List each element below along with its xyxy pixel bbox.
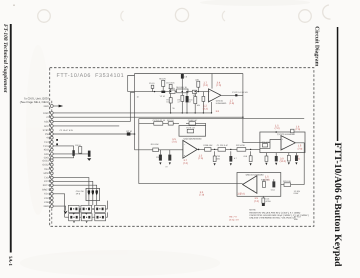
label NJM right opamp (277, 133, 296, 136)
wire opamp bias stubs (211, 74, 214, 113)
wire OSC1 (53, 146, 73, 158)
pin 9 TGT (44, 141, 53, 144)
wire jog node B (130, 93, 134, 122)
svg-text:35: 35 (172, 107, 174, 110)
NOTE block (249, 209, 309, 220)
hole punch top 2 (121, 11, 124, 21)
wire switch right bus (105, 201, 107, 218)
value labels upper hang (166, 98, 200, 109)
svg-text:Q7(2/2) NJM4558D: Q7(2/2) NJM4558D (277, 133, 296, 136)
wire into right box (260, 140, 281, 149)
svg-text:R18: R18 (244, 155, 247, 158)
header stubs to switches (89, 201, 97, 206)
voltage red left of opamp (172, 138, 177, 144)
voltage red near R28 (298, 145, 303, 151)
voltage mark red 1.2 (203, 105, 208, 111)
wire second row rail (139, 118, 304, 120)
capacitor C21B hang (165, 150, 171, 169)
wire stage left edge (134, 74, 136, 150)
svg-text:1.5: 1.5 (298, 145, 302, 148)
pin 6 STBY (43, 129, 54, 132)
pin 16 TRA (44, 168, 53, 171)
resistor R21 (167, 119, 174, 125)
wire KDT to header (53, 185, 96, 188)
svg-text:C17B 0.22 1K: C17B 0.22 1K (153, 119, 166, 122)
diode D1 (72, 150, 74, 156)
svg-text:R5 47K: R5 47K (159, 78, 166, 81)
pin 23 KD2 (44, 197, 53, 200)
resistor R3 (75, 144, 81, 153)
pin 5 ACC (44, 125, 53, 128)
svg-text:KD2: KD2 (44, 197, 49, 200)
voltage red right upper (295, 125, 300, 131)
svg-text:4.7: 4.7 (177, 101, 180, 104)
svg-text:(7.0): (7.0) (254, 200, 259, 203)
pin 4 ASC (44, 120, 53, 123)
svg-text:(10.0): (10.0) (280, 160, 286, 163)
label Q7(1/2) NJM4558D (216, 100, 227, 105)
label C3 CF output (232, 91, 249, 94)
wire bus 4T (53, 116, 243, 118)
svg-text:(7.0): (7.0) (216, 84, 221, 87)
svg-text:(2.2): (2.2) (203, 107, 208, 110)
label header (76, 190, 84, 195)
right vertical rule (337, 27, 339, 141)
svg-text:TRA: TRA (44, 168, 49, 171)
pin 20 KDT3 (43, 184, 53, 187)
resistor R22 series (236, 144, 246, 151)
right title FTT-10/A06 6-Button Keypad (332, 143, 343, 268)
svg-text:Circuit Diagram: Circuit Diagram (314, 26, 320, 66)
svg-text:RESISTOR: VALUES ARE IN Ω ( 1/: RESISTOR: VALUES ARE IN Ω ( 1/4W ), K = … (249, 211, 300, 214)
resistor R10 hang (193, 92, 197, 113)
resistor R5 vertical (159, 78, 166, 91)
resistor R6 series (176, 86, 188, 93)
capacitor C8 vertical (166, 74, 188, 92)
svg-text:Y2 10: Y2 10 (160, 95, 166, 98)
wire GND bottom (53, 206, 65, 211)
capacitor C11 hang (202, 92, 205, 113)
voltage red left of q8 (199, 191, 204, 197)
svg-text:C20B: C20B (156, 156, 161, 159)
ground D1 (84, 146, 87, 148)
junction dots upper rail (154, 91, 199, 92)
pin 7 CW (45, 133, 53, 136)
capacitor C26 below box right (295, 153, 298, 165)
svg-text:GND: GND (44, 205, 50, 208)
ferrite bead Y2 (160, 91, 166, 99)
resistor R24 in q8 box (261, 179, 269, 188)
capacitor C4 (88, 151, 91, 157)
svg-text:KDT: KDT (44, 180, 49, 183)
svg-text:UNLESS OTHERWISE NOTED. VOLTAG: UNLESS OTHERWISE NOTED. VOLTAGE: DC (249, 217, 296, 220)
wire opamp2 output rail (197, 149, 260, 151)
pin 14 OSC1 (42, 159, 53, 162)
voltage red q8 bottomleft (237, 193, 245, 196)
svg-text:KDT3: KDT3 (43, 184, 50, 187)
svg-text:NJM4558D: NJM4558D (191, 138, 202, 141)
svg-text:R3 1K: R3 1K (75, 144, 81, 147)
wire switch links row2 (79, 216, 94, 218)
svg-text:1.6: 1.6 (216, 110, 220, 113)
switch SW5 (81, 214, 92, 223)
junction dots +B rail (56, 139, 58, 145)
svg-text:5A-1: 5A-1 (7, 256, 13, 266)
wire +B CW (53, 133, 134, 135)
pin 11 KDO (44, 148, 53, 151)
svg-text:C3 CF 5.1 5K WV: C3 CF 5.1 5K WV (232, 91, 249, 94)
pin 24 KD6 (44, 201, 53, 204)
svg-text:FT-108 Technical Supplement: FT-108 Technical Supplement (2, 24, 8, 93)
voltage mark red 3.4 (216, 81, 221, 87)
resistor R8 hang (186, 92, 189, 113)
chassis ground mark (64, 211, 68, 214)
wire left column link (65, 216, 69, 218)
svg-text:R17B 1M: R17B 1M (186, 127, 195, 130)
capacitor C24 hang (229, 151, 237, 165)
svg-text:FTT-10/A06 F3534101: FTT-10/A06 F3534101 (57, 73, 125, 79)
svg-text:47/16: 47/16 (266, 200, 272, 203)
pin 3 4T (46, 116, 53, 119)
junction dot +B vertical (134, 133, 136, 135)
wire bus ACC (53, 125, 119, 127)
voltage red right of box (295, 155, 300, 161)
wire KDT3 drop (53, 194, 64, 217)
pin 10 TXT8 (43, 145, 53, 148)
svg-text:(7.0): (7.0) (199, 194, 204, 197)
capacitor C17B (153, 119, 166, 125)
pin 17 MCK (44, 172, 54, 175)
wire right box output (295, 143, 304, 185)
ground pin1 arrow (53, 105, 63, 108)
pin 25 GND (44, 205, 54, 208)
switch SW1 (68, 205, 79, 214)
resistor R29 below q8 box (262, 196, 272, 206)
pin 15 OSC2 (42, 163, 53, 166)
voltage red q8 topright (265, 176, 270, 182)
pin 13 GXD (44, 156, 53, 159)
capacitor C14 in q8 box (271, 179, 276, 191)
wire feedback top rail (135, 73, 243, 75)
voltage mark red below (216, 110, 220, 113)
svg-text:C6 10/16: C6 10/16 (166, 82, 175, 85)
svg-text:R2 10: R2 10 (126, 130, 132, 133)
svg-text:(1.6): (1.6) (229, 102, 234, 105)
hole punch top 3 (175, 8, 188, 21)
svg-text:R6: 7 V: R6: 7 V (229, 215, 237, 218)
wire opamp output (221, 94, 243, 96)
wire feedback long (139, 183, 243, 185)
wire TXD to header (53, 181, 93, 188)
svg-text:C5 10: C5 10 (149, 82, 155, 85)
ground C4 (87, 158, 91, 161)
voltage red q8 below (254, 197, 259, 203)
svg-text:ASC: ASC (44, 121, 49, 124)
svg-text:R6 100K 1K: R6 100K 1K (176, 86, 187, 89)
svg-text:OSC1: OSC1 (42, 159, 49, 162)
voltage mark red output (229, 99, 234, 105)
svg-text:NJM4558D: NJM4558D (216, 102, 227, 105)
capacitor C2 on +B (126, 130, 132, 136)
svg-text:R24 10K: R24 10K (261, 179, 269, 182)
feedback box R17B (179, 126, 206, 137)
left margin title FT-108 Technical Supplement (2, 24, 8, 93)
pin 22 KD1 (44, 192, 53, 195)
svg-text:TGT: TGT (44, 141, 49, 144)
svg-text:(7.0): (7.0) (172, 141, 177, 144)
header CN1 3P (86, 188, 100, 200)
junction dots bus (170, 112, 244, 118)
svg-text:1.6: 1.6 (296, 125, 300, 128)
svg-text:R22 470K: R22 470K (236, 144, 246, 147)
voltage red below opamp (183, 159, 188, 165)
wire MCK to header (53, 178, 89, 189)
wire OSC2 (53, 153, 89, 155)
resistor R28 below box right (287, 153, 290, 165)
svg-text:(7.0): (7.0) (203, 84, 208, 87)
wire inter-row drop (79, 209, 81, 214)
pin 18 TXD (44, 176, 53, 179)
svg-text:NOTE:: NOTE: (249, 209, 256, 212)
wire bus DISC (53, 112, 211, 114)
svg-text:47: 47 (189, 101, 191, 104)
junction dots lower rail (214, 149, 251, 150)
paper speck (13, 5, 15, 7)
wire feedback drop (138, 119, 140, 184)
capacitor C25 below box (275, 153, 278, 166)
svg-text:(6 C): 4 V: (6 C): 4 V (229, 218, 239, 221)
schematic title FTT-10/A06 F3534101 (57, 73, 125, 79)
wire row2 right drop (205, 123, 207, 125)
svg-text:DISC: DISC (43, 112, 49, 115)
svg-text:GND: GND (44, 105, 50, 108)
resistor R27 below box (265, 153, 268, 166)
svg-text:R19 10K: R19 10K (151, 143, 159, 146)
label C2 values (60, 129, 74, 132)
label NJM lower opamp (183, 138, 202, 141)
hole punch top 1 (38, 10, 51, 23)
pin 21 BRGT (42, 188, 53, 191)
capacitor C27 small (291, 129, 294, 133)
hole punch top 5 (299, 10, 312, 23)
switch SW3 (95, 205, 106, 212)
svg-text:(7.5): (7.5) (198, 157, 203, 160)
wire lower signal rail (135, 149, 183, 151)
svg-text:R20B 10K: R20B 10K (203, 144, 213, 147)
wire switch links row1 (79, 208, 94, 209)
svg-text:ACC: ACC (44, 125, 49, 128)
red note voltages (229, 215, 239, 221)
hole punch top 4 (222, 11, 225, 21)
capacitor C10 series small (192, 90, 196, 93)
right header Circuit Diagram (314, 26, 320, 66)
left margin black bar (10, 24, 12, 253)
svg-text:STBY: STBY (43, 129, 50, 132)
wire row2 (139, 122, 179, 124)
voltage red above right box (275, 124, 280, 130)
resistor R9 above (195, 78, 199, 91)
capacitor C23 hang (213, 151, 216, 165)
junction dot box top (275, 131, 277, 133)
pin 1 GND (44, 105, 54, 108)
page number 5A-1 (7, 256, 13, 266)
svg-text:(7.0): (7.0) (183, 162, 188, 165)
svg-text:R21 1K: R21 1K (167, 119, 174, 122)
op-amp box Q7(2/2) (260, 132, 305, 153)
schematic dashed border (50, 68, 314, 227)
capacitor C20B hang (159, 150, 162, 165)
resistor R7 hang (169, 93, 172, 113)
value labels lower hang (156, 155, 247, 160)
label R1 (137, 96, 140, 99)
svg-text:FTT-10: FTT-10 (294, 216, 301, 219)
label To CNTL Unit J2007 (20, 97, 50, 104)
svg-text:R23 10K: R23 10K (283, 180, 291, 183)
label below return wire (294, 190, 301, 195)
voltage mark red 1.7 (203, 81, 208, 87)
resistor R20 series (203, 144, 213, 151)
resistor R25 hang (249, 151, 252, 165)
svg-text:+B: +B (46, 137, 49, 140)
svg-text:SXD: SXD (44, 153, 49, 156)
svg-text:BRGT: BRGT (42, 188, 49, 191)
svg-text:Q8(1/2) NJM4558D: Q8(1/2) NJM4558D (246, 173, 265, 176)
resistor R26 in box (262, 141, 270, 147)
op-amp Q7c (281, 136, 295, 150)
op-amp Q7b lower (183, 140, 197, 158)
svg-text:KD6: KD6 (44, 201, 49, 204)
svg-text:KD1: KD1 (44, 193, 49, 196)
op-amp box Q8 reverse (237, 173, 281, 197)
svg-text:C1 22E 0.47: C1 22E 0.47 (217, 144, 229, 147)
pin 19 KDT (44, 180, 53, 183)
switch SW4 (69, 214, 80, 223)
wire upper signal rail (128, 91, 209, 93)
capacitor C22 series (217, 144, 229, 151)
corner part number (294, 216, 301, 222)
op-amp Q8 left-pointing (243, 176, 257, 194)
capacitor C7 series (168, 87, 175, 93)
svg-text:0.5W: 0.5W (294, 192, 299, 195)
svg-text:(See Page NB-1, NB-5): (See Page NB-1, NB-5) (20, 100, 49, 104)
switch SW6 (95, 214, 106, 221)
svg-text:OSC2: OSC2 (42, 164, 49, 167)
pin 2 DISC (43, 112, 53, 115)
wire bottom return (281, 184, 304, 186)
svg-text:(7.0): (7.0) (295, 128, 300, 131)
hole punch top 6 partial (323, 5, 331, 19)
resistor R19 series (151, 143, 159, 151)
svg-text:FTT-10/A06 6-Button Keypad: FTT-10/A06 6-Button Keypad (332, 143, 343, 268)
voltage red below box (280, 157, 286, 163)
svg-text:R26 47K: R26 47K (262, 141, 270, 144)
svg-text:MCK: MCK (44, 172, 50, 175)
connector column dashed line (51, 101, 53, 226)
switch SW2 (81, 205, 92, 214)
capacitor C9 hang (181, 92, 184, 113)
svg-text:C16B 0.47: C16B 0.47 (188, 119, 198, 122)
svg-text:C2 10 4.7 6.3V: C2 10 4.7 6.3V (60, 129, 74, 132)
wire loop right edge (243, 74, 260, 143)
pin 12 SXD (44, 153, 53, 156)
label Q8 NJM4558D (246, 173, 265, 176)
svg-text:(7.0): (7.0) (240, 193, 245, 196)
wire bus ASC (53, 121, 130, 123)
svg-text:KDO: KDO (44, 149, 49, 152)
svg-text:3P B: 3P B (76, 193, 81, 196)
capacitor C16B (186, 119, 206, 125)
svg-text:TXT8: TXT8 (43, 145, 50, 148)
resistor R23 (283, 180, 291, 186)
capacitor C5 vertical (149, 82, 155, 92)
svg-text:(7.0): (7.0) (275, 127, 280, 130)
svg-text:TXD: TXD (44, 177, 49, 180)
wire inner loop left (128, 76, 135, 92)
voltage red at output (198, 154, 203, 160)
pin 8 +B (46, 136, 53, 139)
svg-text:(7.0): (7.0) (298, 147, 303, 150)
op-amp Q7a (209, 89, 221, 102)
